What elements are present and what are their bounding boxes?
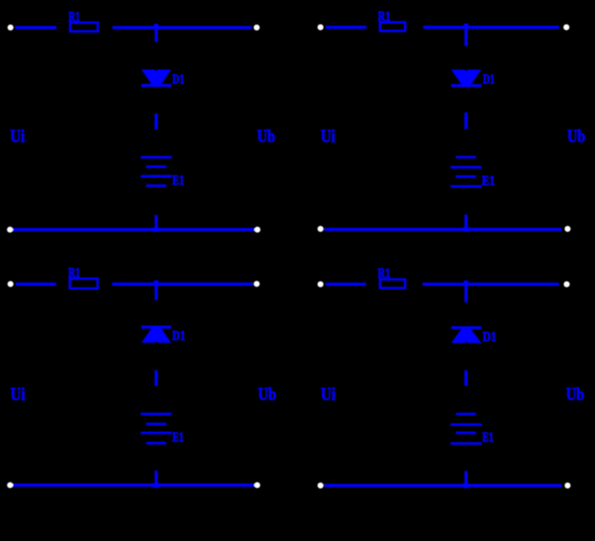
wire (circuit 1 bottom rail) — [13, 228, 255, 231]
svg-text:D1: D1 — [483, 73, 495, 88]
wire (circuit 3 branch dash from E1 to bottom rail, junction) — [153, 471, 159, 489]
terminal node output - (bottom-right) (circuit 4) — [565, 483, 571, 489]
wire (circuit 4 top rail, right segment) — [423, 283, 560, 286]
wire (circuit 4 bottom rail) — [324, 484, 561, 487]
wire (circuit 2 branch dash between D1 and E1) — [464, 112, 467, 129]
resistor R1 (circuit 3) — [70, 279, 98, 289]
wire (circuit 1 top rail, right segment) — [113, 26, 252, 29]
battery E1 (circuit 1) — [141, 156, 172, 187]
svg-text:Ub: Ub — [258, 384, 276, 404]
wire (circuit 4 top rail, left segment) — [326, 283, 366, 286]
svg-text:Ui: Ui — [10, 126, 25, 146]
wire (circuit 2 branch dash from top rail, junction) — [464, 24, 469, 46]
terminal node output - (bottom-right) (circuit 3) — [254, 482, 260, 488]
wire (circuit 3 top rail, right segment) — [112, 283, 253, 286]
svg-text:Ui: Ui — [321, 384, 336, 404]
wire (circuit 4 branch dash between D1 and E1) — [464, 370, 467, 386]
svg-text:E1: E1 — [482, 431, 493, 446]
svg-text:R1: R1 — [68, 266, 80, 281]
terminal node input - (bottom-left) (circuit 3) — [7, 482, 13, 488]
battery E1 (circuit 2) — [451, 156, 482, 188]
terminal node output - (bottom-right) (circuit 2) — [565, 226, 571, 232]
diode D1 (circuit 2) — [451, 70, 481, 88]
terminal node input - (bottom-left) (circuit 1) — [7, 227, 13, 233]
wire (circuit 1 branch dash from top rail, junction) — [154, 24, 159, 42]
svg-text:Ub: Ub — [567, 126, 585, 146]
svg-text:E1: E1 — [172, 174, 184, 189]
resistor R1 (circuit 4) — [380, 279, 405, 288]
terminal node input + (top-left) (circuit 2) — [318, 24, 324, 30]
svg-text:D1: D1 — [172, 329, 185, 344]
terminal node input - (bottom-left) (circuit 2) — [318, 226, 324, 232]
wire (circuit 3 top rail, left segment) — [16, 283, 56, 286]
svg-text:D1: D1 — [483, 330, 497, 345]
wire (circuit 2 top rail, right segment) — [423, 26, 559, 29]
svg-text:R1: R1 — [378, 267, 391, 282]
terminal node output + (top-right) (circuit 2) — [563, 24, 569, 30]
terminal node input + (top-left) (circuit 3) — [8, 281, 14, 287]
terminal node output + (top-right) (circuit 1) — [254, 25, 260, 31]
wire (circuit 1 branch dash between D1 and E1) — [155, 114, 158, 130]
terminal node output + (top-right) (circuit 4) — [564, 281, 570, 287]
wire (circuit 2 bottom rail) — [324, 228, 561, 231]
resistor R1 (circuit 2) — [380, 22, 405, 31]
svg-text:Ui: Ui — [321, 126, 336, 146]
diode D1 (circuit 1) — [141, 70, 171, 87]
wire (circuit 1 branch dash from E1 to bottom rail, junction) — [153, 215, 159, 232]
terminal node output - (bottom-right) (circuit 1) — [254, 227, 260, 233]
terminal node input - (bottom-left) (circuit 4) — [318, 483, 324, 489]
wire (circuit 3 bottom rail) — [13, 484, 256, 487]
wire (circuit 2 top rail, left segment) — [326, 26, 367, 29]
svg-text:R1: R1 — [69, 10, 81, 25]
wire (circuit 2 branch dash from E1 to bottom rail, junction) — [463, 215, 469, 232]
wire (circuit 3 branch dash from top rail, junction) — [154, 280, 159, 300]
terminal node output + (top-right) (circuit 3) — [254, 281, 260, 287]
wire (circuit 4 branch dash from E1 to bottom rail, junction) — [463, 471, 469, 488]
svg-text:Ub: Ub — [566, 384, 584, 404]
diode D1 (circuit 4) — [451, 326, 481, 343]
battery E1 (circuit 4) — [451, 413, 482, 445]
wire (circuit 1 top rail, left segment) — [15, 26, 57, 29]
svg-text:E1: E1 — [482, 174, 495, 189]
svg-text:Ui: Ui — [10, 384, 25, 404]
diode D1 (circuit 3) — [141, 326, 171, 343]
battery E1 (circuit 3) — [141, 413, 172, 445]
terminal node input + (top-left) (circuit 4) — [318, 281, 324, 287]
svg-text:D1: D1 — [172, 72, 184, 87]
svg-text:Ub: Ub — [257, 126, 275, 146]
terminal node input + (top-left) (circuit 1) — [8, 25, 14, 31]
svg-text:R1: R1 — [378, 10, 391, 25]
wire (circuit 4 branch dash from top rail, junction) — [464, 281, 469, 303]
svg-text:E1: E1 — [172, 431, 184, 446]
wire (circuit 3 branch dash between D1 and E1) — [155, 370, 158, 386]
resistor R1 (circuit 1) — [70, 23, 98, 32]
